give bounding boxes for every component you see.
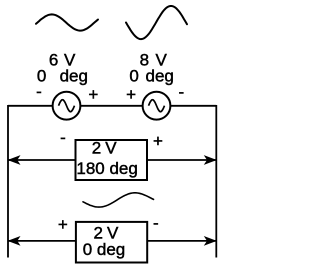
svg-text:+: + — [153, 131, 163, 150]
svg-text:2 V: 2 V — [92, 139, 118, 158]
svg-text:-: - — [178, 82, 184, 101]
svg-text:180 deg: 180 deg — [76, 159, 137, 178]
svg-text:-: - — [153, 213, 159, 232]
svg-text:+: + — [58, 215, 68, 234]
svg-text:deg: deg — [60, 67, 88, 86]
svg-text:+: + — [126, 85, 136, 104]
svg-text:+: + — [88, 85, 98, 104]
svg-text:0: 0 — [129, 67, 138, 86]
svg-text:0 deg: 0 deg — [83, 240, 126, 259]
svg-text:deg: deg — [146, 67, 174, 86]
svg-text:-: - — [36, 82, 42, 101]
svg-text:-: - — [60, 128, 66, 147]
